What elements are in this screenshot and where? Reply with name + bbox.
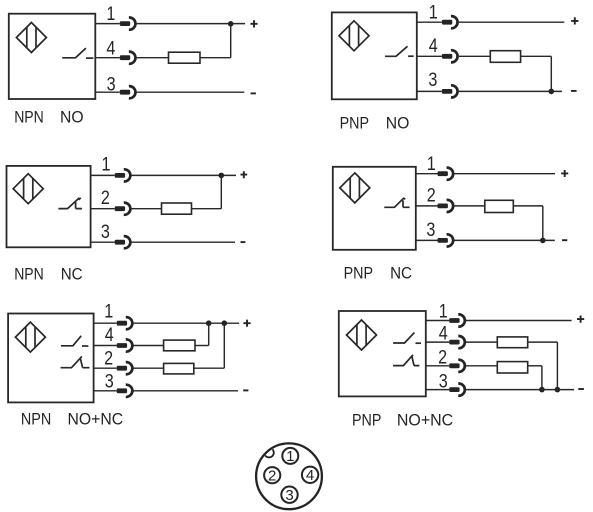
minus terminal (241, 241, 246, 243)
svg-text:1: 1 (102, 154, 111, 175)
connector plug pin3 (449, 384, 465, 396)
wire pin2 to load (132, 208, 162, 210)
svg-text:4: 4 (306, 467, 314, 484)
wire pin2 stub (426, 365, 449, 367)
sensor head symbol (347, 320, 377, 350)
wire pin3 stub (417, 90, 442, 92)
svg-text:NO: NO (60, 109, 84, 127)
connector body circle (256, 443, 322, 509)
wire down to minus rail (542, 206, 544, 241)
junction node (549, 89, 555, 95)
wire pin4 stub (95, 57, 120, 59)
pin 1 circle (282, 448, 298, 464)
svg-text:NPN: NPN (14, 265, 44, 283)
sensor U5 body (8, 314, 94, 403)
minus terminal (578, 388, 584, 390)
wire pin4 to load (137, 57, 169, 59)
wire pin1 stub (417, 21, 442, 23)
wire junction B down (223, 323, 225, 368)
junction node A (206, 320, 212, 326)
load resistor R5b (164, 363, 194, 374)
wire junction down (230, 24, 232, 58)
wire pin1 stub (94, 322, 117, 324)
wire pin2 stub (416, 205, 438, 207)
svg-text:4: 4 (439, 324, 448, 345)
svg-text:PNP: PNP (340, 115, 369, 133)
sensor U1 body (9, 14, 96, 99)
load resistor R6b (497, 362, 527, 373)
svg-text:2: 2 (101, 188, 110, 209)
sensor U3 body (7, 166, 91, 247)
connector plug pin2 (449, 360, 465, 372)
wire pin1 to + (454, 173, 555, 175)
wire load right (521, 55, 552, 57)
svg-text:PNP: PNP (352, 411, 381, 429)
sensor U4 body (333, 167, 416, 250)
plus terminal (571, 17, 578, 24)
switch S5a (NO contact) (61, 336, 81, 346)
svg-text:2: 2 (104, 349, 113, 370)
wire pin4 stub (94, 345, 117, 347)
wire pin4 to load (459, 55, 491, 57)
load resistor R5a (164, 340, 195, 351)
wire junction A down (208, 323, 210, 345)
wire pin4 stub (426, 341, 449, 343)
wire pin1 stub (91, 174, 115, 176)
connector plug pin4 (449, 336, 465, 348)
connector plug pin4 (120, 52, 136, 64)
switch S1 fixed contact dash (86, 57, 94, 59)
wire pin1 stub (416, 173, 438, 175)
load resistor R3 (162, 203, 192, 214)
connector plug pin1 (115, 169, 131, 181)
plus terminal (577, 316, 584, 323)
connector plug pin1 (449, 314, 465, 326)
connector plug pin1 (120, 18, 136, 30)
junction node B (222, 320, 228, 326)
svg-text:NO: NO (386, 115, 410, 133)
connector plug pin4 (117, 339, 133, 351)
wire pin3 stub (95, 91, 120, 93)
keyway notch (264, 448, 274, 458)
pin 2 circle (264, 467, 280, 483)
wire load right (513, 205, 543, 207)
load resistor R6a (497, 337, 527, 348)
minus terminal (562, 239, 567, 241)
wire load A right (528, 341, 558, 343)
load resistor R1 (169, 52, 201, 63)
wire pin3 to - (466, 389, 574, 391)
connector plug pin3 (115, 236, 131, 248)
sensor head symbol (339, 21, 369, 51)
svg-text:PNP: PNP (344, 265, 373, 283)
svg-text:NPN: NPN (14, 109, 44, 127)
svg-text:1: 1 (429, 3, 438, 24)
junction node B (539, 387, 545, 393)
svg-text:2: 2 (268, 468, 276, 485)
wire pin4 stub (417, 55, 442, 57)
switch S6b (NC contact) (393, 355, 419, 366)
junction node (219, 173, 225, 179)
wire pin3 to - (137, 91, 245, 93)
svg-text:NC: NC (390, 265, 412, 283)
switch S2 fixed contact dash (408, 55, 414, 57)
wire pin1 to + (459, 21, 565, 23)
svg-text:1: 1 (104, 301, 113, 322)
switch S3 (NC contact) (58, 198, 82, 209)
switch S5b (NC contact) (61, 356, 90, 367)
wire pin1 to + (134, 322, 240, 324)
wire pin3 stub (426, 389, 449, 391)
pin 4 circle (302, 467, 318, 483)
wire load A to junction A (195, 345, 209, 347)
wire load B to junction B (194, 367, 225, 369)
connector plug pin3 (120, 86, 136, 98)
wire pin3 stub (416, 239, 438, 241)
svg-text:3: 3 (285, 487, 293, 504)
svg-text:NO+NC: NO+NC (68, 410, 124, 428)
minus terminal (243, 389, 248, 391)
svg-text:4: 4 (429, 36, 438, 57)
wire load to junction (192, 208, 222, 210)
connector plug pin2 (117, 362, 133, 374)
sensor head symbol (16, 23, 46, 53)
svg-text:2: 2 (427, 186, 436, 207)
svg-text:1: 1 (439, 302, 448, 323)
plus terminal (250, 20, 257, 27)
svg-text:4: 4 (105, 325, 114, 346)
wire down to minus rail B (541, 366, 543, 390)
junction node A (555, 387, 561, 393)
wire pin3 to - (132, 241, 236, 243)
connector plug pin1 (442, 16, 458, 28)
connector plug pin3 (438, 234, 454, 246)
wire load B right (528, 365, 542, 367)
switch S6a (NO contact) (393, 333, 414, 343)
pin 3 circle (281, 487, 297, 503)
svg-text:2: 2 (438, 348, 447, 369)
wire pin4 to load A (134, 345, 164, 347)
svg-text:4: 4 (106, 38, 115, 59)
connector plug pin1 (438, 168, 454, 180)
wire pin4 to load A (466, 341, 497, 343)
svg-text:3: 3 (439, 372, 448, 393)
wire pin1 to + (466, 320, 572, 322)
connector plug pin3 (442, 85, 458, 97)
svg-text:1: 1 (427, 154, 436, 175)
connector plug pin2 (115, 203, 131, 215)
sensor U2 body (332, 12, 417, 99)
connector plug pin4 (442, 50, 458, 62)
svg-text:3: 3 (105, 372, 114, 393)
wire pin2 to load B (134, 367, 164, 369)
wire down to minus rail (550, 56, 552, 91)
switch S5a fixed contact dash (82, 345, 88, 347)
junction node (540, 238, 546, 244)
minus terminal (571, 90, 577, 92)
wire junction down (220, 175, 222, 208)
wire down to minus rail A (556, 342, 558, 390)
wire pin2 to load (454, 205, 485, 207)
plus terminal (243, 320, 250, 327)
wire pin2 stub (91, 208, 115, 210)
svg-text:NO+NC: NO+NC (397, 411, 453, 429)
wire pin3 to - (454, 239, 555, 241)
svg-text:NC: NC (61, 265, 83, 283)
connector plug pin2 (438, 200, 454, 212)
plus terminal (561, 170, 568, 177)
connector plug pin3 (117, 385, 133, 397)
svg-text:1: 1 (106, 4, 115, 25)
wire pin3 stub (94, 390, 117, 392)
sensor head symbol (13, 174, 43, 204)
svg-text:3: 3 (426, 220, 435, 241)
svg-text:3: 3 (107, 75, 116, 96)
switch S1 (NO contact) (62, 48, 86, 58)
wire load to junction (200, 57, 231, 59)
switch S2 (NO contact) (385, 46, 408, 56)
junction node (228, 21, 234, 27)
wire pin1 stub (95, 23, 120, 25)
load resistor R4 (485, 200, 514, 212)
plus terminal (241, 171, 248, 178)
minus terminal (251, 92, 256, 94)
wire pin3 to - (459, 90, 562, 92)
svg-text:NPN: NPN (21, 410, 51, 428)
switch S4 (NC contact) (384, 198, 409, 207)
wire pin1 stub (426, 320, 449, 322)
load resistor R2 (490, 51, 520, 63)
wire pin1 to + (132, 174, 237, 176)
wire pin3 to - (134, 390, 239, 392)
wire pin3 stub (91, 241, 115, 243)
sensor head symbol (340, 173, 370, 203)
svg-text:3: 3 (428, 70, 437, 91)
sensor U6 body (339, 311, 426, 396)
sensor head symbol (15, 322, 45, 352)
wire pin1 to + (137, 23, 246, 25)
svg-text:1: 1 (286, 448, 294, 465)
connector plug pin1 (117, 317, 133, 329)
wire pin2 stub (94, 367, 117, 369)
switch S6a fixed contact dash (416, 342, 422, 344)
svg-text:3: 3 (101, 222, 110, 243)
wire pin2 to load B (466, 365, 497, 367)
